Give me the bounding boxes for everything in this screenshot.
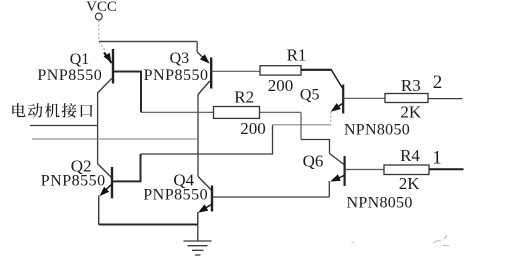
transistor Q6 collector diagonal <box>330 154 345 165</box>
transistor Q1 emitter arrow <box>104 53 112 64</box>
svg-text:NPN8050: NPN8050 <box>344 122 410 139</box>
resistor R3 <box>385 94 428 103</box>
svg-text:Q3: Q3 <box>170 50 190 67</box>
wire motor terminal 1 <box>30 125 98 127</box>
wire Q1 collector down to motor node and Q2 <box>97 93 99 165</box>
VCC label <box>86 0 117 15</box>
wire R2 right node vertical <box>300 112 302 139</box>
svg-text:R2: R2 <box>234 88 254 107</box>
transistor Q1 collector diagonal <box>98 78 112 93</box>
wire R3 right output <box>428 98 463 100</box>
transistor Q1 emitter wire (dotted upper part) <box>99 42 105 52</box>
wire Q6 emitter down to Q4 base <box>328 181 330 197</box>
svg-text:VCC: VCC <box>86 0 117 15</box>
transistor Q3 base wire to R1 <box>211 70 260 72</box>
label motor interface 电动机接口 <box>12 103 92 118</box>
transistor Q6 bar <box>344 156 346 186</box>
transistor Q4 base wire to Q6 emitter node <box>212 196 329 198</box>
svg-text:NPN8050: NPN8050 <box>347 195 413 212</box>
svg-text:2K: 2K <box>400 103 422 122</box>
resistor R2 <box>214 107 260 119</box>
transistor Q5 base wire to R3 <box>343 97 385 99</box>
decorative faint marks bottom right <box>352 235 450 246</box>
resistor R1 <box>260 66 301 75</box>
wire R4 right output thick <box>429 168 464 170</box>
svg-text:R1: R1 <box>287 46 307 65</box>
transistor Q5 emitter arrow <box>336 104 343 109</box>
transistor Q1 base wire (thick, to right and down) <box>113 72 141 113</box>
transistor Q6 base wire to R4 <box>345 169 384 171</box>
wire rail right drop to Q3 emitter <box>196 42 198 53</box>
svg-text:200: 200 <box>268 76 294 95</box>
svg-text:200: 200 <box>240 119 266 138</box>
transistor Q6 emitter arrow <box>338 176 345 179</box>
svg-text:2: 2 <box>433 72 443 93</box>
wire Q1 base to R2 left <box>141 111 214 113</box>
transistor Q4 bar <box>211 186 213 212</box>
transistor Q4 collector diagonal <box>198 177 211 191</box>
transistor Q5 bar <box>342 85 344 114</box>
transistor Q3 collector diagonal <box>198 81 210 95</box>
svg-text:PNP8550: PNP8550 <box>37 67 102 84</box>
transistor Q2 collector diagonal <box>98 164 112 178</box>
svg-text:PNP8550: PNP8550 <box>41 173 106 190</box>
svg-text:Q5: Q5 <box>300 87 320 104</box>
svg-text:2K: 2K <box>399 174 421 193</box>
wire node to Q5 emitter line <box>273 124 331 126</box>
svg-text:PNP8550: PNP8550 <box>144 67 209 84</box>
transistor Q4 emitter arrow <box>205 205 212 209</box>
wire motor terminal 2 <box>32 138 198 140</box>
wire Q4 emitter down to rail <box>197 212 199 225</box>
wire VCC dotted drop to rail <box>98 20 100 41</box>
wire Q2 emitter down to rail <box>98 196 100 225</box>
wire bottom rail <box>99 224 198 226</box>
wire node to Q6 collector <box>301 140 330 154</box>
wire R2 right <box>259 111 301 113</box>
wire Q2 base net: up and right to node <box>112 154 141 181</box>
wire top VCC rail <box>99 41 197 43</box>
svg-text:Q6: Q6 <box>303 152 324 171</box>
ground <box>184 225 212 256</box>
wire Q3 collector long vertical down to Q4 <box>197 95 199 177</box>
svg-text:R3: R3 <box>401 76 421 95</box>
svg-text:Q1: Q1 <box>70 51 90 68</box>
svg-text:R4: R4 <box>400 146 420 165</box>
transistor Q3 emitter arrow <box>197 52 204 59</box>
transistor Q3 bar <box>210 58 212 89</box>
transistor Q1 bar <box>112 49 114 84</box>
VCC terminal circle <box>95 13 102 20</box>
resistor R4 <box>384 165 429 175</box>
svg-text:PNP8550: PNP8550 <box>143 187 208 204</box>
svg-text:1: 1 <box>432 148 442 169</box>
wire Q5 emitter dotted drop <box>330 112 332 125</box>
transistor Q2 bar <box>111 167 113 198</box>
transistor Q2 emitter arrow <box>105 185 112 191</box>
wire R1 right thick link to Q5 collector <box>301 69 332 71</box>
